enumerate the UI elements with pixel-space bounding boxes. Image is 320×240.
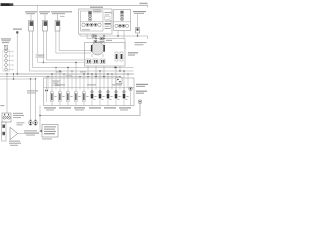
wire	[87, 34, 125, 49]
fuse row box	[44, 78, 135, 106]
divider	[114, 21, 131, 23]
K3 label	[13, 113, 24, 118]
wire	[80, 34, 148, 39]
terminal row	[82, 23, 101, 26]
lamp labels	[24, 130, 39, 135]
connector B	[43, 15, 48, 32]
relay K3	[2, 113, 11, 122]
lamp L3	[34, 120, 38, 126]
terminal stubs	[7, 51, 13, 71]
title text	[1, 3, 14, 6]
note arrow	[39, 130, 42, 133]
bus wire labels	[56, 71, 86, 76]
wire	[117, 31, 119, 37]
horn amplifier	[10, 127, 39, 139]
lamp L1	[129, 87, 133, 106]
relay K1	[88, 11, 91, 21]
junction	[39, 115, 40, 116]
inline connector	[100, 37, 103, 39]
wire labels	[27, 90, 38, 93]
fuse labels below	[44, 107, 131, 110]
bus wire	[0, 73, 134, 75]
fuse block terminals	[3, 45, 9, 71]
connector A label	[25, 11, 37, 14]
fuse value marks	[54, 96, 128, 97]
diode D1 label	[133, 11, 146, 14]
wire	[59, 31, 91, 51]
wire	[103, 66, 105, 77]
bus drop wires	[52, 63, 124, 92]
component on bus	[116, 77, 122, 84]
wire	[119, 66, 121, 71]
wire	[95, 66, 97, 77]
terminal row	[115, 24, 129, 27]
wire	[123, 31, 125, 39]
right bus labels	[136, 84, 148, 94]
breaker B7	[99, 87, 103, 106]
wire	[17, 34, 133, 75]
junction dots	[6, 35, 138, 79]
node E label	[13, 29, 22, 34]
inline connector	[92, 35, 95, 37]
wire	[30, 79, 32, 121]
wire labels	[98, 40, 112, 43]
control unit U1	[79, 7, 113, 34]
connector C label	[51, 11, 72, 17]
page number text	[140, 3, 148, 4]
R2 label	[128, 52, 138, 55]
secondary junctions	[47, 67, 128, 77]
thermal fuse TF1	[45, 77, 48, 103]
wire	[56, 31, 91, 53]
wire	[42, 31, 44, 63]
connector C	[55, 15, 60, 32]
feed wire	[38, 5, 85, 62]
note box	[42, 125, 58, 138]
connector A	[29, 15, 34, 32]
wire	[103, 34, 105, 47]
divider	[81, 21, 104, 23]
secondary drop wires	[48, 68, 128, 90]
inline connector	[139, 100, 142, 103]
wire	[87, 66, 89, 74]
relay K2	[120, 11, 123, 21]
right note text	[135, 42, 147, 45]
breaker B10	[123, 87, 127, 106]
fuse F5	[82, 91, 85, 106]
bus wire	[0, 76, 120, 78]
wire	[95, 34, 97, 42]
motor M1	[91, 40, 105, 57]
wire	[13, 74, 15, 79]
horn label bottom	[9, 141, 21, 146]
wire	[114, 66, 116, 68]
resistor box R2	[115, 52, 123, 61]
relay label	[0, 105, 4, 106]
bus wire	[0, 78, 36, 80]
wire label box	[36, 54, 44, 58]
fuse block label	[1, 38, 11, 43]
title rule	[14, 5, 148, 7]
fuse F4	[74, 91, 77, 106]
wire	[47, 31, 85, 60]
breaker B6	[91, 87, 95, 106]
junction box J1	[114, 10, 131, 31]
connector strip	[2, 122, 7, 141]
wire	[29, 31, 133, 71]
resistor pack R1	[85, 43, 126, 67]
ground bus	[40, 103, 140, 115]
lamp L2	[29, 120, 33, 126]
breaker B8	[107, 87, 111, 106]
pin labels	[82, 12, 112, 30]
wire	[33, 31, 134, 68]
fuse F2	[58, 91, 61, 106]
ground wire	[39, 106, 41, 130]
note caption	[42, 138, 52, 139]
wire	[35, 79, 37, 121]
connector B label	[39, 11, 50, 14]
wire	[6, 74, 8, 113]
fuse F3	[66, 91, 69, 106]
horn label top	[17, 122, 25, 125]
diode D1	[136, 14, 140, 36]
breaker B9	[115, 87, 119, 106]
fuse F1	[50, 91, 53, 106]
fuse F0	[4, 45, 7, 49]
fuse labels above	[55, 84, 122, 85]
